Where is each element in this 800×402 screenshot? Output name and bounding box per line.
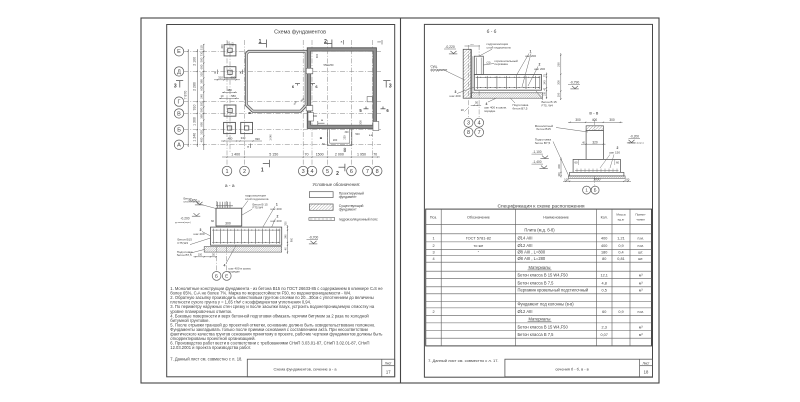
svg-text:580: 580: [199, 57, 203, 62]
axis circle 6: [347, 166, 357, 176]
svg-text:1000: 1000: [593, 177, 600, 181]
svg-text:0,5: 0,5: [602, 289, 607, 293]
svg-text:50: 50: [322, 143, 325, 146]
svg-text:300: 300: [609, 118, 615, 122]
svg-text:0,81: 0,81: [617, 257, 624, 261]
svg-text:п.м.: п.м.: [637, 310, 643, 314]
svg-text:340: 340: [241, 136, 246, 140]
spec table grid: [426, 209, 652, 346]
svg-text:0,4: 0,4: [618, 250, 623, 254]
wall pier below pool: [308, 113, 314, 122]
svg-text:0,9: 0,9: [618, 244, 623, 248]
svg-text:400: 400: [601, 237, 607, 241]
svg-text:200: 200: [199, 101, 203, 106]
footing F4 pad: [224, 122, 236, 133]
svg-text:шаг 200: шаг 200: [194, 232, 205, 236]
svg-text:а: а: [240, 71, 242, 75]
chain C tick 14: [203, 144, 204, 145]
wall pier axis D: [306, 68, 313, 73]
svg-text:8: 8: [467, 130, 470, 136]
svg-text:-0,200: -0,200: [630, 135, 639, 139]
svg-text:ГОСТ 5781-82: ГОСТ 5781-82: [466, 236, 491, 241]
step mark: [317, 121, 319, 125]
v-v bottom dim: [563, 180, 631, 182]
svg-text:580: 580: [199, 107, 203, 112]
title block L divider: [381, 359, 383, 377]
svg-text:1: 1: [585, 188, 588, 193]
axis circle 3: [298, 166, 308, 176]
footing F5 pad: [241, 122, 253, 133]
svg-text:480: 480: [227, 88, 232, 92]
pool foundation strip outer: [245, 50, 307, 112]
axis circle Б: [174, 125, 183, 134]
chain C tick 1: [203, 51, 204, 52]
svg-text:50: 50: [212, 253, 215, 256]
footing dim row B: [221, 140, 262, 142]
svg-text:100: 100: [625, 177, 630, 181]
svg-text:Ø8 АIII , L=280: Ø8 АIII , L=280: [518, 256, 546, 261]
footing F1 pad: [224, 45, 236, 56]
svg-text:180: 180: [601, 250, 607, 254]
svg-text:ед,кг: ед,кг: [618, 217, 626, 221]
svg-text:1 240: 1 240: [193, 133, 197, 142]
footing F5 column: [244, 126, 248, 130]
chain C tick 7: [203, 91, 204, 92]
svg-text:1 300: 1 300: [193, 117, 197, 126]
chain C tick 12: [203, 129, 204, 130]
svg-text:Г: Г: [178, 100, 181, 106]
building wall band: [307, 48, 376, 129]
chain B tick А: [197, 144, 198, 145]
svg-text:2: 2: [243, 169, 246, 175]
svg-text:а: а: [214, 71, 216, 75]
svg-text:бетон В7,5: бетон В7,5: [535, 141, 551, 145]
svg-text:2,3: 2,3: [602, 325, 607, 329]
wall pier axis V: [306, 106, 313, 111]
svg-text:а.в: а.в: [377, 41, 381, 44]
axis circle 1: [222, 166, 232, 176]
svg-text:слой гидроизола: слой гидроизола: [487, 45, 511, 49]
b-b slab rebar bot: [476, 87, 541, 89]
footing F4 column: [227, 126, 231, 130]
svg-text:300: 300: [345, 131, 350, 134]
svg-text:380: 380: [199, 114, 203, 119]
mark a pool corner: [249, 112, 251, 114]
chain C tick 3: [203, 62, 204, 63]
svg-text:310: 310: [218, 76, 223, 80]
chain B tick Б: [197, 129, 198, 130]
axis circle Д: [174, 67, 183, 76]
right page inner frame: [424, 24, 652, 377]
svg-text:шаг 200: шаг 200: [271, 207, 282, 211]
chain A tick bot: [188, 144, 189, 145]
legend box belt: [309, 218, 335, 221]
svg-text:-1,100: -1,100: [532, 150, 541, 154]
v-v left vchain: [560, 158, 562, 178]
axis circle 4: [307, 166, 317, 176]
porch outer: [328, 128, 352, 145]
svg-text:300: 300: [557, 80, 561, 85]
b-b wall hatched: [463, 49, 471, 98]
svg-text:910: 910: [193, 105, 197, 111]
svg-text:2: 2: [432, 244, 434, 248]
a-a axis line E: [226, 201, 228, 272]
v-v footing rebar: [575, 169, 619, 171]
svg-text:Ø14 АIII: Ø14 АIII: [518, 236, 533, 241]
svg-text:310: 310: [199, 130, 203, 135]
v-v column dim: [581, 143, 606, 145]
svg-text:7: 7: [366, 169, 369, 175]
svg-text:380: 380: [199, 79, 203, 84]
svg-text:шаг 200: шаг 200: [450, 94, 461, 98]
chain B tick Д: [197, 71, 198, 72]
svg-text:Ø12 АIII: Ø12 АIII: [518, 243, 533, 248]
dim chain C line: [203, 44, 205, 150]
b-b circle 4: [475, 118, 484, 127]
chain C tick 10: [203, 113, 204, 114]
svg-text:м³: м³: [639, 289, 643, 293]
svg-text:100: 100: [543, 91, 546, 96]
svg-text:то же: то же: [474, 243, 484, 248]
v-v axis: [594, 120, 596, 186]
svg-text:80: 80: [602, 257, 606, 261]
svg-text:12,1: 12,1: [601, 274, 608, 278]
svg-text:Д: Д: [177, 69, 181, 75]
svg-text:": ": [478, 249, 480, 254]
svg-text:1500: 1500: [316, 153, 324, 157]
svg-text:200: 200: [333, 138, 338, 142]
svg-text:шт.: шт.: [638, 257, 643, 261]
svg-text:1,21: 1,21: [617, 237, 624, 241]
a-a circle B: [212, 272, 221, 281]
chain C tick 5: [203, 77, 204, 78]
svg-text:17: 17: [386, 369, 391, 374]
svg-text:п.м.: п.м.: [637, 244, 643, 248]
svg-text:Бетон класса В 15 W4,F50: Бетон класса В 15 W4,F50: [518, 273, 569, 278]
svg-text:Лист: Лист: [643, 361, 650, 365]
svg-text:-0,220: -0,220: [445, 45, 455, 49]
svg-text:60: 60: [574, 160, 578, 164]
chain C tick 4: [203, 71, 204, 72]
svg-text:20: 20: [461, 108, 465, 112]
b-b slab stirrups: [477, 76, 479, 89]
a-a axis line B: [216, 201, 218, 272]
axis line 5: [327, 40, 329, 167]
svg-text:пергамин: пергамин: [495, 62, 509, 66]
chain B tick Е: [197, 51, 198, 52]
svg-text:3: 3: [302, 169, 305, 175]
svg-text:70: 70: [543, 74, 546, 77]
svg-text:0,9: 0,9: [618, 310, 623, 314]
v-v podgotovka: [568, 176, 625, 178]
svg-text:600: 600: [199, 86, 203, 91]
svg-text:F75,W4: F75,W4: [178, 241, 189, 245]
svg-text:70: 70: [373, 153, 377, 157]
svg-text:550х250: 550х250: [324, 63, 335, 67]
svg-text:а: а: [341, 40, 343, 44]
b-b right chain1: [546, 73, 548, 100]
svg-text:Пергамин кровельный подстилочн: Пергамин кровельный подстилочный: [518, 288, 589, 293]
svg-text:фундамент: фундамент: [339, 195, 357, 199]
svg-text:столбчатый: столбчатый: [184, 200, 201, 204]
svg-text:Спецификация к схеме располо: Спецификация к схеме расположения: [498, 203, 585, 209]
chain B tick Г: [197, 101, 198, 102]
v-v base slab: [570, 172, 624, 176]
svg-text:-0.200: -0.200: [180, 217, 189, 221]
svg-text:690: 690: [231, 76, 236, 80]
svg-text:Масса: Масса: [616, 212, 625, 216]
axis line В: [184, 112, 381, 114]
bottom dim line: [222, 156, 380, 158]
svg-text:200: 200: [344, 135, 347, 140]
axis line Б: [184, 129, 381, 131]
v-v column cap hatched: [586, 126, 603, 131]
svg-text:Плита (м.д. б-б): Плита (м.д. б-б): [524, 228, 555, 233]
bottom dim tick: [244, 156, 245, 157]
right wall foot: [373, 122, 379, 131]
b-b circle 8: [464, 128, 473, 137]
svg-text:10: 10: [221, 94, 224, 98]
a-a slab rebar top: [212, 229, 280, 231]
chain C tick 11: [203, 119, 204, 120]
svg-text:Бетон класса В 7,5: Бетон класса В 7,5: [518, 281, 555, 286]
footing axis line: [229, 43, 231, 152]
svg-text:F75,W4: F75,W4: [253, 205, 264, 209]
dim chain A line: [187, 49, 189, 147]
svg-text:730: 730: [199, 51, 203, 56]
svg-text:м³: м³: [639, 325, 643, 329]
svg-text:580: 580: [232, 42, 235, 47]
legend box existing: [309, 204, 333, 210]
svg-text:100: 100: [557, 92, 561, 97]
b-b bottom dim 50: [471, 104, 481, 106]
svg-text:а.н: а.н: [470, 44, 474, 46]
porch mark: [320, 137, 322, 139]
svg-text:100: 100: [557, 172, 561, 177]
left page inner frame: [167, 25, 395, 377]
svg-text:F75, W4: F75, W4: [542, 103, 554, 107]
svg-text:70: 70: [305, 153, 309, 157]
svg-text:шаг 150: шаг 150: [609, 150, 620, 154]
svg-text:60: 60: [211, 219, 215, 223]
svg-text:а - а: а - а: [225, 184, 235, 189]
footing F3 column: [228, 109, 232, 113]
svg-text:м³: м³: [639, 274, 643, 278]
axis line 3: [302, 40, 304, 167]
svg-text:12.03.2001 и проекта производс: 12.03.2001 и проекта производства работ.: [170, 345, 251, 350]
svg-text:690: 690: [255, 137, 260, 141]
svg-text:Ø8 АIII , L=800: Ø8 АIII , L=800: [518, 249, 546, 254]
svg-text:60: 60: [616, 160, 620, 164]
svg-text:4: 4: [432, 257, 434, 261]
svg-text:В: В: [177, 111, 181, 117]
svg-text:2: 2: [617, 146, 619, 150]
svg-text:6: 6: [292, 84, 295, 89]
v-v column: [586, 131, 603, 160]
v-v footing step: [573, 159, 620, 172]
axis circle Е: [174, 47, 183, 56]
svg-text:Условные обозначения:: Условные обозначения:: [312, 182, 360, 187]
svg-text:690: 690: [199, 122, 203, 127]
svg-text:5: 5: [359, 108, 362, 113]
a-a wall: [216, 208, 242, 226]
svg-text:а.в.: а.в.: [369, 134, 374, 137]
svg-text:шт.: шт.: [638, 250, 643, 254]
bottom dim tick: [351, 156, 352, 157]
a-a bottom dim: [194, 256, 217, 258]
svg-text:Б: Б: [215, 274, 218, 279]
page divider: [400, 18, 402, 383]
bottom dim tick: [372, 156, 373, 157]
chain C tick 0: [203, 44, 204, 45]
svg-text:400: 400: [228, 137, 233, 141]
svg-text:7. Данный лист см. совместно с: 7. Данный лист см. совместно с л. 18.: [170, 356, 242, 361]
footing F2 pad: [224, 67, 236, 78]
title block R: [505, 359, 653, 377]
svg-text:400: 400: [199, 137, 203, 142]
svg-text:0,07: 0,07: [601, 333, 608, 337]
svg-text:Приме-: Приме-: [635, 212, 646, 216]
b-b right chain2: [560, 53, 562, 100]
svg-text:5: 5: [326, 169, 329, 175]
svg-text:1 950: 1 950: [357, 153, 366, 157]
svg-text:500: 500: [355, 132, 360, 136]
svg-text:3: 3: [389, 83, 392, 89]
axis line 7: [371, 40, 373, 167]
axis line А: [184, 144, 381, 146]
a-a slab stirrups: [213, 229, 215, 244]
svg-text:сечения б - б, в - в: сечения б - б, в - в: [555, 367, 588, 372]
svg-text:а: а: [247, 145, 249, 149]
svg-text:3: 3: [432, 250, 434, 254]
svg-text:5 150: 5 150: [269, 153, 278, 157]
a-a wall dowels: [216, 205, 233, 207]
svg-text:ур.земли(черн.): ур.земли(черн.): [175, 222, 191, 224]
svg-text:Наименование: Наименование: [543, 215, 569, 219]
svg-text:Схема фундаментов, сечение: Схема фундаментов, сечение а - а: [273, 367, 337, 372]
svg-text:260: 260: [557, 62, 561, 67]
svg-text:100: 100: [564, 177, 569, 181]
svg-text:4: 4: [310, 169, 313, 175]
svg-text:300: 300: [225, 221, 231, 225]
svg-text:Материалы: Материалы: [529, 317, 551, 322]
svg-text:м³: м³: [639, 282, 643, 286]
chain C tick 13: [203, 135, 204, 136]
building wall inner: [311, 51, 373, 125]
svg-text:4: 4: [478, 121, 481, 127]
v-v circle B: [591, 186, 599, 194]
svg-text:310: 310: [199, 45, 203, 50]
svg-text:Обозначение: Обозначение: [467, 215, 490, 219]
bottom dim tick: [226, 156, 227, 157]
svg-text:100: 100: [198, 254, 203, 257]
chain B tick В: [197, 113, 198, 114]
svg-text:Поз.: Поз.: [430, 215, 437, 219]
axis line Д: [184, 70, 381, 72]
svg-text:1: 1: [261, 167, 264, 173]
svg-text:Ø12 АIII: Ø12 АIII: [518, 309, 533, 314]
svg-text:1: 1: [259, 39, 262, 45]
svg-text:2: 2: [432, 310, 434, 314]
svg-text:7: 7: [478, 130, 481, 136]
a-a slab rebar bot: [212, 241, 280, 243]
b-b slab: [474, 75, 541, 91]
svg-text:300: 300: [575, 118, 581, 122]
svg-text:18: 18: [644, 369, 649, 374]
axis line Е: [184, 50, 381, 52]
porch stirrup circles: [344, 148, 346, 150]
footing F1 column: [228, 48, 232, 52]
outer border both pages: [141, 18, 659, 383]
svg-text:4: 4: [224, 263, 226, 267]
svg-text:а: а: [321, 118, 323, 122]
svg-text:фундамент: фундамент: [339, 208, 357, 212]
svg-text:900: 900: [290, 237, 293, 242]
a-a podgotovka: [204, 247, 282, 253]
svg-text:8: 8: [376, 169, 379, 175]
svg-text:б - б: б - б: [487, 29, 497, 35]
svg-text:3: 3: [467, 121, 470, 127]
chain C tick 8: [203, 101, 204, 102]
svg-text:6: 6: [315, 84, 318, 89]
building wall outer: [307, 48, 376, 129]
svg-text:гидроизоляционный пояс: гидроизоляционный пояс: [339, 218, 378, 222]
b-b axis 4: [478, 45, 480, 118]
b-b upstand dowels: [476, 58, 478, 87]
a-a slab: [211, 227, 282, 245]
svg-text:340: 340: [543, 80, 546, 85]
v-v top dim: [568, 121, 623, 123]
svg-text:-1,400: -1,400: [532, 160, 541, 164]
svg-text:Бетон класса В 15 W4,F50: Бетон класса В 15 W4,F50: [518, 324, 569, 329]
b-b podgotovka: [472, 93, 543, 98]
pool strip fill: [245, 50, 307, 112]
dim chain B line: [196, 49, 198, 147]
svg-text:шаг 200: шаг 200: [534, 67, 545, 71]
chain C tick 9: [203, 106, 204, 107]
pool foundation strip inner: [248, 53, 306, 111]
chain A tick top: [188, 51, 189, 52]
svg-text:шаг 200: шаг 200: [271, 219, 282, 223]
axis circle А: [174, 140, 183, 149]
footing F3 pad: [224, 105, 236, 116]
svg-text:п.м.: п.м.: [637, 237, 643, 241]
b-b axis 3: [468, 45, 470, 118]
svg-text:50: 50: [475, 101, 479, 105]
b-b wall joint lines: [471, 49, 473, 98]
svg-text:Кол.: Кол.: [601, 215, 608, 219]
axis circle 5: [323, 166, 333, 176]
axis line 1: [226, 40, 228, 167]
svg-text:6: 6: [350, 169, 353, 175]
svg-text:А: А: [177, 143, 181, 149]
svg-text:Лист: Лист: [385, 361, 392, 365]
v-v circle 1: [583, 186, 591, 194]
title block L: [247, 359, 394, 377]
bottom dim tick: [327, 156, 328, 157]
b-b top ticks: [465, 45, 481, 47]
axis circle 7: [363, 166, 373, 176]
svg-text:300: 300: [316, 53, 319, 58]
axis circle Г: [174, 97, 183, 106]
b-b slab rebar top: [476, 76, 541, 78]
svg-text:40: 40: [284, 247, 287, 250]
svg-text:1: 1: [225, 169, 228, 175]
svg-text:(20: (20: [487, 60, 491, 64]
svg-text:6: 6: [386, 108, 389, 113]
bottom dim tick: [377, 156, 378, 157]
axis circle 8: [372, 166, 382, 176]
